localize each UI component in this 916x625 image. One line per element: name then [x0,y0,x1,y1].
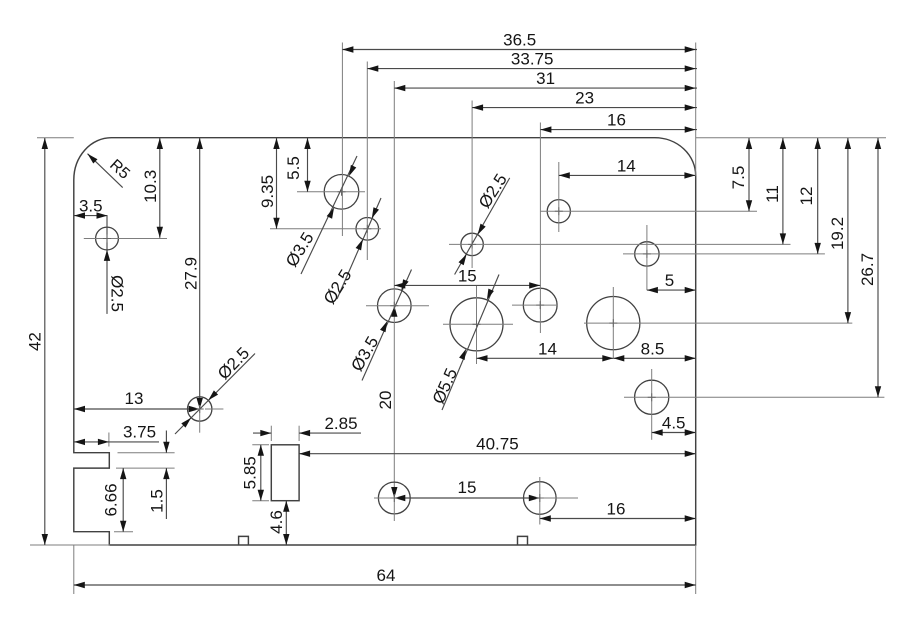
dim 64 [74,566,696,588]
svg-text:13: 13 [125,389,144,408]
top edge left extension line [37,137,74,139]
notch top extension [118,452,175,454]
dim 5 [647,271,696,293]
leader hole C diameter [320,198,381,308]
hole E crosshair [443,323,513,325]
svg-text:12: 12 [797,187,816,206]
hole M circle [378,482,410,514]
leader hole I diameter [175,344,255,434]
svg-text:19.2: 19.2 [828,217,847,250]
hole L crosshair + extension to 11 dim [449,243,791,245]
6.66 bottom extension [114,531,133,533]
svg-text:16: 16 [607,111,626,130]
svg-text:15: 15 [458,478,477,497]
leader hole L diameter [455,170,511,274]
svg-text:64: 64 [377,566,396,585]
svg-text:10.3: 10.3 [141,170,160,203]
dim 36.5 [342,31,697,53]
dim 33.75 [367,50,697,72]
svg-text:14: 14 [617,156,636,175]
hole center marks [103,188,656,502]
svg-text:9.35: 9.35 [258,175,277,208]
svg-text:11: 11 [763,185,782,203]
plate outline [74,138,696,545]
hole N circle [524,482,557,515]
dim 16 top [540,111,697,133]
dim 5.85 [241,445,265,501]
hole D circle [378,289,412,323]
hole B circle [324,175,359,210]
top edge right extension line [696,137,886,139]
leader R5 [88,154,133,188]
dim 16 bottom [540,500,696,522]
hole E circle [450,298,503,351]
64 dim left extension [73,545,75,594]
svg-text:2.85: 2.85 [324,414,357,433]
hole A crosshair [84,238,167,240]
hole L vertical extension to 23 dim [471,101,473,269]
svg-text:33.75: 33.75 [511,50,554,69]
hole G circle [587,297,640,350]
64 dim right extension [695,545,697,594]
dim 4.5 [652,414,696,436]
svg-text:Ø2.5: Ø2.5 [108,275,127,312]
dim 3.75 [74,422,159,445]
dim 14 mid [477,339,614,361]
dim 1.5 [148,431,170,520]
hole B vertical extension to 36.5 dim [341,43,343,237]
dim 15 mid [394,266,540,288]
dim 19.2 [828,138,851,323]
svg-text:15: 15 [458,266,477,285]
hole F circle [523,288,557,322]
svg-text:27.9: 27.9 [182,257,201,290]
hole D crosshair [366,305,429,307]
hole J crosshair + extension to 7.5 dim [540,210,757,212]
leader hole B diameter [282,156,357,274]
dim 4.6 [267,501,290,545]
svg-text:16: 16 [607,500,626,519]
rectangular slot [271,445,299,501]
hole A circle [96,227,119,250]
dim 13 [74,389,200,412]
svg-text:14: 14 [538,339,557,358]
dim 26.7 [858,138,881,397]
hole D vertical extension to 31 dim and 20 dim down to hole M [393,81,395,498]
hole C vertical extension to 33.75 dim [366,62,368,261]
hole F crosshair [512,304,558,306]
leader hole E diameter [429,275,499,411]
svg-text:6.66: 6.66 [102,483,121,516]
svg-text:5.5: 5.5 [284,156,303,180]
dim 40.75 [299,435,696,457]
hole N crosshair [500,497,578,499]
svg-text:20: 20 [376,391,395,410]
hole K circle [635,242,659,266]
svg-text:31: 31 [536,69,555,88]
svg-text:5.85: 5.85 [241,456,260,489]
right edge top extension line [695,43,697,177]
hole J circle [547,200,570,223]
svg-text:1.5: 1.5 [148,489,167,513]
bottom left extension for 42 dim [30,544,110,546]
notch bottom extension [116,467,175,469]
bottom notch tab 1 [239,536,249,545]
hole K crosshair + extension to 12 dim [623,253,825,255]
leader hole D diameter [347,270,411,381]
svg-text:36.5: 36.5 [503,31,536,50]
dim 15 bottom [394,478,540,501]
svg-text:3.75: 3.75 [123,422,156,441]
hole C crosshair [270,228,381,230]
svg-text:40.75: 40.75 [476,435,519,454]
dim 20 arrows [376,306,398,498]
rect slot left extensions [252,444,269,446]
bottom notch tab 2 [518,536,528,545]
dim 7.5 [729,138,752,211]
hole G crosshair + extension to 19.2 dim [584,322,852,324]
dim 14 top [559,156,696,178]
hole I crosshair [205,408,223,410]
hole I circle [188,397,212,421]
rect slot top extension ticks [270,426,272,441]
dim 2.85 [253,414,361,436]
svg-text:23: 23 [575,89,594,108]
svg-text:3.5: 3.5 [79,197,103,216]
svg-text:4.5: 4.5 [662,414,686,433]
dim 23 [472,89,697,111]
hole F vertical extension to 16 top dim [539,123,541,334]
dim 3.5 [74,197,108,219]
dim 5.5 [284,138,311,192]
hole H circle [635,380,669,414]
dim 8.5 [613,339,695,361]
dim 42 [26,138,49,545]
hole L circle [461,233,483,255]
hole A vertical line (3.5 ext + diameter leader) [104,216,127,314]
svg-text:8.5: 8.5 [641,339,665,358]
dim 31 [394,69,697,91]
svg-text:26.7: 26.7 [858,253,877,286]
hole H crosshair + extension to 26.7 dim [624,396,884,398]
svg-text:7.5: 7.5 [729,166,748,190]
dim 10.3 [141,138,163,238]
dim 9.35 [258,138,280,229]
svg-text:42: 42 [26,332,45,351]
dim 27.9 [182,138,203,409]
dim 12 [797,138,821,254]
hole C circle [356,218,379,241]
dim 11 [763,138,786,244]
hole B crosshair [297,191,365,193]
svg-text:4.6: 4.6 [267,510,286,534]
dim 6.66 [102,468,127,532]
svg-text:5: 5 [665,271,674,290]
